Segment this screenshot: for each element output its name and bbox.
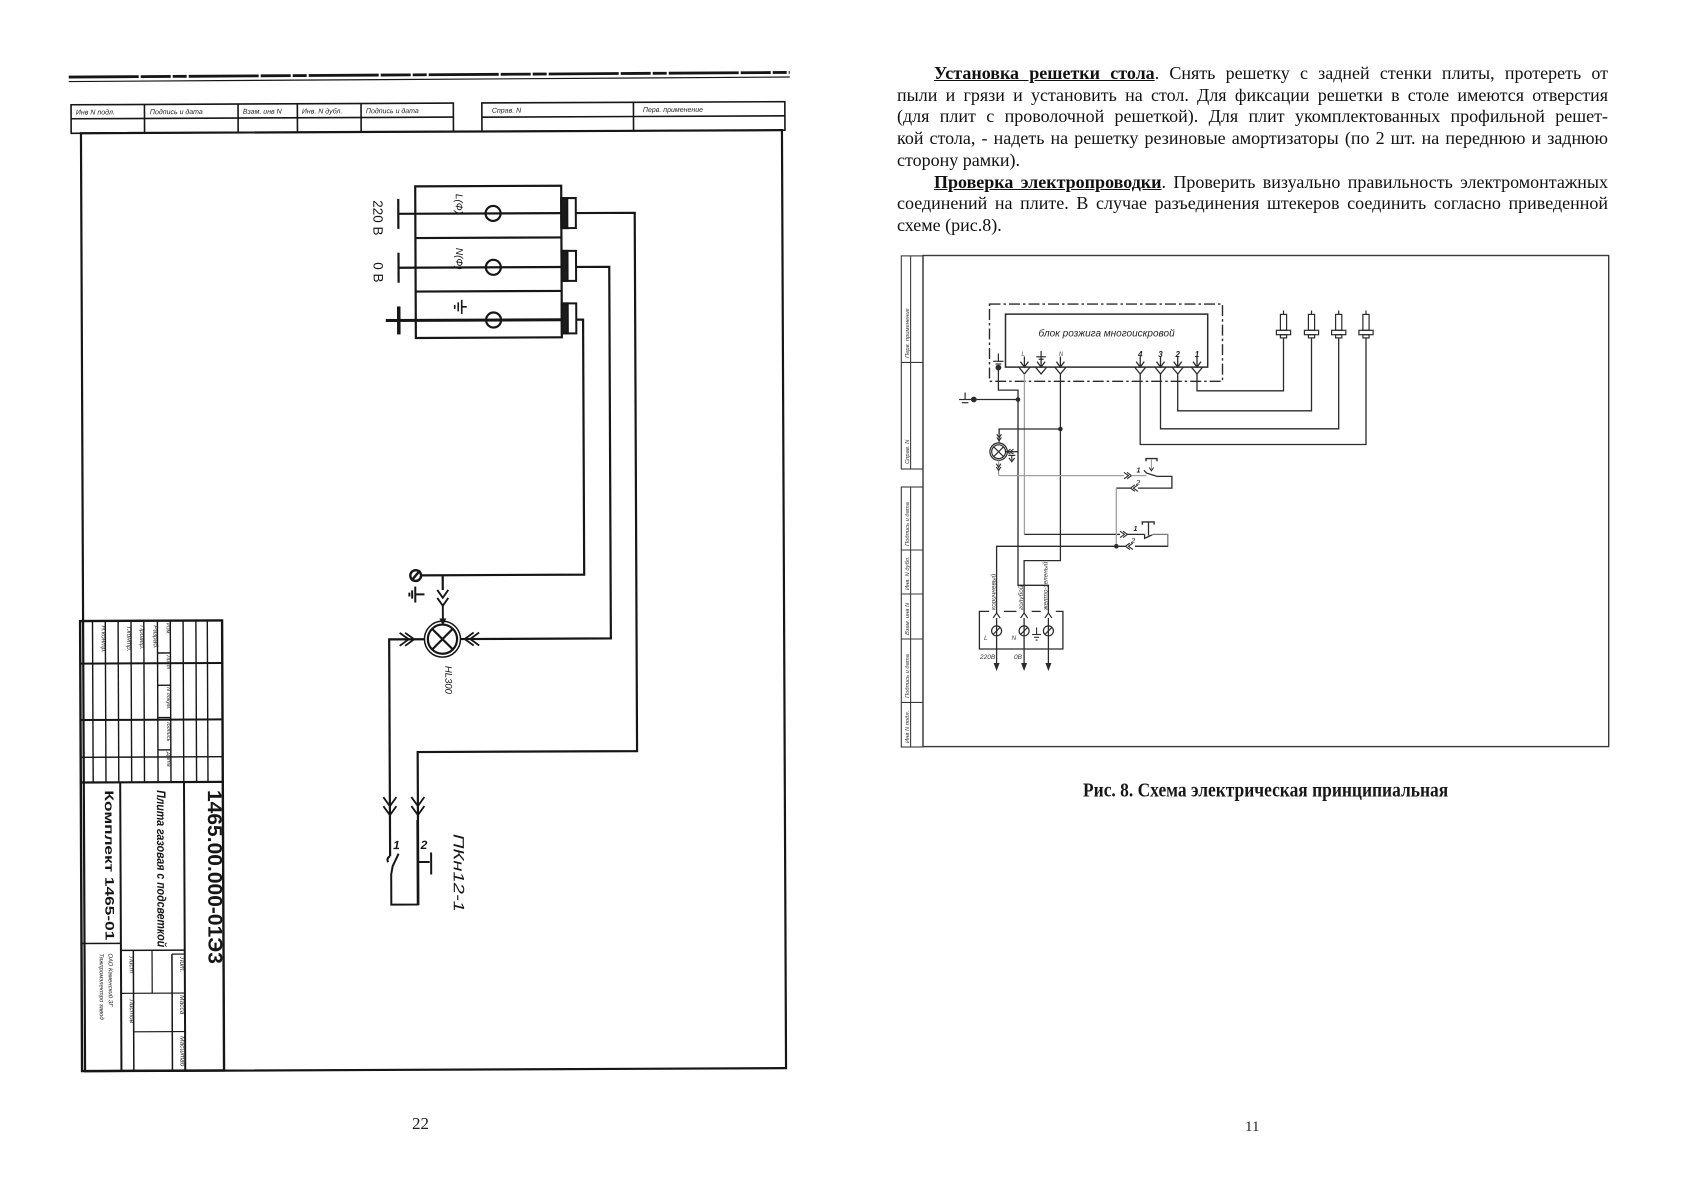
svg-text:220 В: 220 В bbox=[370, 200, 385, 235]
wire N junction to lamp top bbox=[999, 429, 1060, 434]
svg-text:Плита газовая с подсветкой: Плита газовая с подсветкой bbox=[154, 790, 169, 947]
svg-text:Перв. применение: Перв. применение bbox=[643, 107, 703, 114]
svg-text:L: L bbox=[1021, 352, 1024, 358]
svg-text:ОАО Каменский ЗГ: ОАО Каменский ЗГ bbox=[107, 953, 114, 1007]
lamp HL right page bbox=[990, 443, 1007, 460]
connector arrows SB1 pin1 bbox=[1124, 472, 1132, 478]
wire L (grey) bbox=[1023, 374, 1025, 534]
svg-text:0 В: 0 В bbox=[371, 262, 386, 282]
switch SB2 plunger bbox=[1142, 522, 1154, 536]
terminal block XT1 bbox=[415, 186, 562, 338]
right page paragraphs bbox=[897, 63, 1608, 237]
svg-text:2: 2 bbox=[1174, 350, 1180, 359]
pin 3 of A1 bbox=[1155, 357, 1166, 375]
switch ПКн12-1 contact bbox=[387, 820, 431, 905]
svg-text:Изм.: Изм. bbox=[165, 623, 171, 635]
pin 4 of A1 bbox=[1135, 357, 1146, 375]
spark plug FV2 bbox=[1304, 311, 1318, 338]
svg-text:1: 1 bbox=[1134, 526, 1138, 533]
wire lamp left to switch pin1 bbox=[389, 639, 425, 856]
XT2 ground symbol bbox=[1032, 628, 1041, 641]
wire FV4 to pin4 bbox=[1140, 338, 1366, 445]
terminal XT1:N circle bbox=[486, 260, 501, 275]
figure frame bbox=[923, 256, 1609, 747]
pin L of A1 bbox=[1019, 357, 1030, 375]
svg-text:Подпись и дата: Подпись и дата bbox=[905, 653, 911, 698]
svg-text:Перв. применение: Перв. применение bbox=[905, 307, 911, 358]
junction PE bbox=[1016, 397, 1021, 402]
connector arrows lamp left bbox=[400, 633, 415, 646]
svg-text:N: N bbox=[1012, 635, 1017, 642]
svg-text:HL300: HL300 bbox=[442, 666, 453, 695]
spark plug FV1 bbox=[1276, 311, 1290, 338]
junction to lamp bbox=[442, 575, 444, 590]
svg-text:Справ. N: Справ. N bbox=[492, 108, 522, 115]
svg-text:3: 3 bbox=[1158, 350, 1163, 359]
internal ground of A1 bbox=[993, 354, 1003, 370]
svg-text:Подпись: Подпись bbox=[165, 720, 171, 742]
svg-text:Инв. N дубл.: Инв. N дубл. bbox=[905, 556, 911, 590]
lamp HL300 bbox=[424, 621, 460, 657]
switch SB1 contact bbox=[1138, 470, 1172, 488]
sheet edge double rule bbox=[69, 72, 790, 81]
svg-text:Справ. N: Справ. N bbox=[905, 439, 911, 464]
svg-text:Масштаб: Масштаб bbox=[178, 1036, 186, 1067]
wire 220V L input bbox=[398, 198, 561, 229]
svg-text:1465.00.000-01Э3: 1465.00.000-01Э3 bbox=[203, 790, 226, 964]
wire L below XT2 bbox=[994, 618, 1000, 671]
connector tab XT1:PE bbox=[562, 303, 577, 333]
svg-text:Лист: Лист bbox=[128, 955, 135, 973]
pin 1 of A1 bbox=[1191, 357, 1202, 375]
svg-text:Подпись и дата: Подпись и дата bbox=[905, 501, 911, 546]
connector arrow lamp top bbox=[997, 429, 1002, 443]
connector arrows lamp right bbox=[1007, 449, 1014, 454]
wire A1 ground down bbox=[998, 369, 1018, 400]
svg-text:Инв. N дубл.: Инв. N дубл. bbox=[302, 107, 343, 115]
svg-text:N(Ф): N(Ф) bbox=[453, 248, 464, 270]
junction N-lamp bbox=[1058, 427, 1063, 432]
svg-text:Провер.: Провер. bbox=[138, 625, 145, 649]
wire lamp right to PE vertical bbox=[1006, 451, 1019, 453]
svg-text:Дата: Дата bbox=[165, 751, 171, 767]
connector arrows SB2 pin1 bbox=[1120, 531, 1128, 537]
wire external ground to junction bbox=[976, 399, 1018, 401]
svg-text:L(Ф): L(Ф) bbox=[453, 194, 464, 214]
svg-text:Лит.: Лит. bbox=[178, 956, 185, 972]
title block outer bbox=[80, 620, 224, 1071]
connector arrow lamp bottom bbox=[996, 464, 1001, 471]
XT2 entry arrow PE bbox=[1045, 613, 1052, 618]
terminal circle with slash bbox=[410, 570, 421, 581]
wire SB2 pin1 stub bbox=[1128, 533, 1145, 535]
connector arrows wire1 down bbox=[383, 797, 396, 815]
terminal XT1:PE circle bbox=[486, 312, 501, 327]
XT2 entry arrow L bbox=[993, 613, 1000, 618]
terminal XT1:L circle bbox=[486, 206, 501, 221]
pin 2 of A1 bbox=[1172, 357, 1183, 375]
margin strip table 1 bbox=[901, 256, 923, 469]
terminal block XT2 bbox=[979, 611, 1063, 649]
connector tab XT1:N bbox=[561, 251, 576, 281]
wire 0V N input bbox=[398, 252, 561, 283]
external ground bbox=[959, 393, 976, 403]
wire FV1 to pin1 bbox=[1197, 338, 1284, 391]
connector arrows SB1 pin2 bbox=[1130, 485, 1138, 491]
wire PE vertical bbox=[1018, 400, 1048, 615]
svg-text:Комплект 1465-01: Комплект 1465-01 bbox=[102, 790, 117, 940]
ignition unit A1 body bbox=[1006, 314, 1208, 367]
pin PE of A1 bbox=[1036, 357, 1047, 375]
switch SB2 contact bbox=[1135, 534, 1168, 546]
svg-text:N: N bbox=[1059, 352, 1064, 358]
svg-text:Тяжпромэлектро завод: Тяжпромэлектро завод bbox=[98, 953, 104, 1020]
svg-text:голубой: голубой bbox=[1017, 585, 1025, 610]
wire SB1 pin2 to SB2 pin2 (grey) bbox=[1116, 488, 1130, 546]
svg-text:Подпись и дата: Подпись и дата bbox=[150, 108, 203, 116]
wire SB2 pin2 to XT2:L bbox=[997, 546, 1126, 614]
svg-text:220В: 220В bbox=[979, 654, 996, 661]
svg-text:N докум.: N докум. bbox=[165, 687, 171, 709]
svg-text:Листов: Листов bbox=[128, 998, 135, 1023]
switch SB1 plunger bbox=[1146, 459, 1157, 471]
PE ground symbol in block bbox=[455, 300, 467, 314]
wire PE below XT2 bbox=[1045, 618, 1051, 671]
wire N vertical bbox=[1024, 374, 1060, 614]
wire N to lamp right bbox=[459, 267, 611, 639]
spark plug FV3 bbox=[1332, 311, 1346, 338]
svg-text:Т.контр.: Т.контр. bbox=[125, 625, 132, 651]
XT2 terminal L bbox=[992, 626, 1002, 636]
svg-text:L: L bbox=[984, 635, 988, 642]
svg-text:Масса: Масса bbox=[178, 995, 185, 1015]
junction SB pins 2 bbox=[1114, 544, 1119, 549]
connector arrows lamp right bbox=[465, 632, 480, 645]
connector arrows SB2 pin2 bbox=[1125, 543, 1133, 549]
svg-text:коричневый: коричневый bbox=[990, 573, 998, 610]
svg-text:1: 1 bbox=[1137, 467, 1141, 474]
spark plug FV4 bbox=[1359, 311, 1373, 338]
wire L to switch pin2 bbox=[415, 213, 637, 905]
pin N of A1 bbox=[1055, 357, 1066, 375]
svg-text:1: 1 bbox=[1195, 350, 1200, 359]
wire N below XT2 bbox=[1021, 618, 1027, 671]
ignition unit A1 boundary (dash-dot) bbox=[990, 304, 1223, 381]
svg-text:4: 4 bbox=[1137, 350, 1143, 359]
wire FV3 to pin3 bbox=[1161, 338, 1339, 429]
XT2 entry arrow N bbox=[1021, 613, 1028, 618]
svg-text:2: 2 bbox=[1135, 478, 1141, 487]
wire PE to lamp branch bbox=[420, 320, 584, 576]
svg-text:Н.контр.: Н.контр. bbox=[100, 625, 107, 653]
svg-text:Взам. инв N: Взам. инв N bbox=[905, 602, 911, 635]
svg-text:Подпись и дата: Подпись и дата bbox=[366, 107, 419, 115]
title block lower bbox=[81, 782, 185, 1071]
svg-text:блок розжига многоискровой: блок розжига многоискровой bbox=[1039, 328, 1176, 340]
svg-text:Лист: Лист bbox=[165, 654, 171, 670]
connector arrows lamp top bbox=[437, 590, 448, 626]
pin PE ground symbol bbox=[1036, 351, 1046, 359]
svg-text:0В: 0В bbox=[1014, 654, 1023, 661]
svg-text:1: 1 bbox=[393, 838, 400, 852]
wire SB1 pin1 stub bbox=[1132, 475, 1147, 477]
svg-text:2: 2 bbox=[1130, 536, 1136, 545]
svg-text:Инв N подл.: Инв N подл. bbox=[905, 711, 911, 743]
header strip table 2 bbox=[482, 102, 785, 132]
connector arrows wire2 down bbox=[411, 797, 424, 815]
svg-text:2: 2 bbox=[420, 838, 428, 852]
svg-text:ПКн12-1: ПКн12-1 bbox=[450, 834, 467, 912]
wire PE input bbox=[386, 306, 562, 335]
wire L to SB2 pin1 bbox=[1024, 533, 1120, 535]
XT2 terminal PE bbox=[1043, 626, 1053, 636]
connector tab XT1:L bbox=[561, 198, 576, 228]
header strip table 1 bbox=[71, 103, 453, 133]
lamp polarity mark bbox=[1008, 455, 1015, 461]
svg-text:Инв N подл.: Инв N подл. bbox=[76, 108, 115, 116]
svg-text:Разраб.: Разраб. bbox=[152, 625, 160, 649]
wire lamp bottom (grey) bbox=[999, 460, 1124, 475]
XT2 terminal N bbox=[1019, 626, 1029, 636]
ground under terminal bbox=[409, 587, 424, 603]
svg-text:Взам. инв N: Взам. инв N bbox=[243, 109, 283, 116]
svg-text:желто-зеленый: желто-зеленый bbox=[1041, 561, 1049, 611]
margin strip table 2 bbox=[901, 487, 923, 747]
title block upper grid bbox=[80, 620, 223, 782]
wire FV2 to pin2 bbox=[1178, 338, 1312, 411]
drawing frame bbox=[81, 130, 786, 1071]
